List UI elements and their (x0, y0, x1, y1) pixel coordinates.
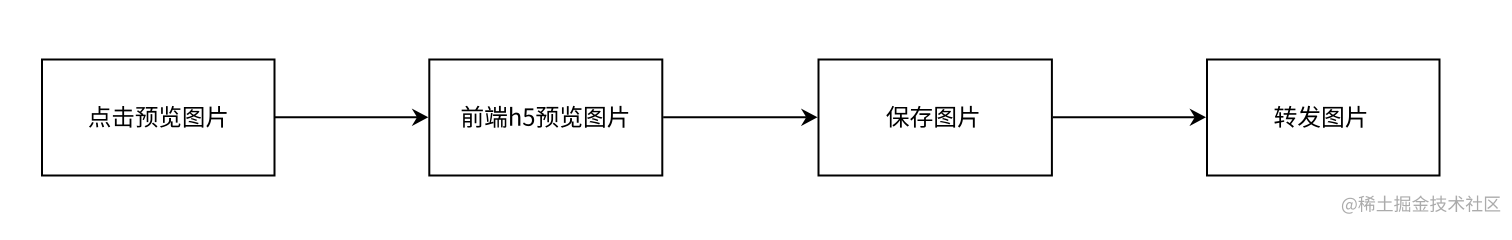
process box 2 rect (429, 60, 662, 176)
wire: arrow 3 shaft (box 3 to box 4) (1053, 116, 1195, 118)
box 3 label 保存图片 (886, 106, 978, 128)
arrow 2 head (801, 108, 818, 126)
process box 4 rect (1207, 60, 1440, 176)
process box 1 rect (42, 60, 275, 176)
box 2 label 前端h5预览图片 (462, 106, 629, 128)
arrow 1 head (412, 108, 429, 126)
wire: arrow 1 shaft (box 1 to box 2) (276, 116, 418, 118)
wire: arrow 2 shaft (box 2 to box 3) (663, 116, 806, 118)
box 1 label 点击预览图片 (89, 106, 227, 128)
box 4 label 转发图片 (1274, 106, 1366, 128)
watermark @稀土掘金技术社区 (1342, 195, 1500, 213)
arrow 3 head (1189, 108, 1206, 126)
process box 3 rect (819, 60, 1052, 176)
